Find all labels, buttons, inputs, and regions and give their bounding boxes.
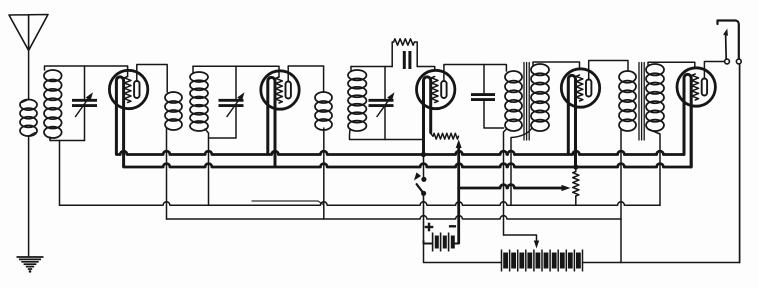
wire plate lead V1 xyxy=(137,65,167,93)
tube V3 detector xyxy=(417,70,455,108)
transformer T4 secondary xyxy=(531,64,549,75)
wire L1 to ground xyxy=(28,136,30,256)
transformer T3 secondary xyxy=(348,70,366,80)
wire grid circuit stage 3 xyxy=(351,66,392,68)
capacitor C4 bypass xyxy=(471,93,495,96)
ground xyxy=(17,256,44,258)
wire switch to A battery xyxy=(423,195,425,241)
wire V5 left leg to A+ bus xyxy=(683,108,686,155)
filament V4 xyxy=(568,75,575,167)
transformer T2 secondary xyxy=(190,72,208,82)
wire plate lead V5 xyxy=(704,62,724,79)
wire grid lead V5 xyxy=(648,62,695,68)
grid condenser xyxy=(403,51,406,69)
filament V1 xyxy=(116,77,123,167)
wire antenna lead-in xyxy=(28,51,30,100)
wire V5 right leg to A- bus xyxy=(690,108,693,167)
transformer T5 secondary xyxy=(646,64,664,75)
wire T5 secondary bottom xyxy=(648,129,660,205)
wire grid lead V4 xyxy=(533,62,580,69)
junction V3 filament to A+ bus xyxy=(421,152,426,157)
wire grid lead V3 xyxy=(417,67,435,71)
phone terminal tip jack right xyxy=(736,59,741,64)
wire B battery tap xyxy=(504,235,537,241)
transformer T4 primary xyxy=(505,71,522,83)
wire bus to switch contact xyxy=(423,155,425,178)
wire T4 secondary bottom xyxy=(511,128,532,205)
rheostat R1 filament xyxy=(431,134,433,137)
wire T4 primary bottom to tap xyxy=(504,129,507,235)
wire T3 primary bottom to B+ bus xyxy=(323,128,325,219)
tube V2 second RF amplifier xyxy=(261,71,299,109)
wire T2 primary bottom to B+ bus xyxy=(166,128,168,219)
capacitor C1 variable tuning xyxy=(72,99,97,102)
antenna xyxy=(9,15,48,51)
junction V4 filament A- bus xyxy=(573,164,578,169)
coil L2 tuned secondary xyxy=(44,70,62,81)
wire grid lead V1 xyxy=(127,66,129,77)
wire plate lead V3 xyxy=(444,65,507,81)
wire T3 secondary bottom to filament xyxy=(350,129,424,140)
battery B plate supply xyxy=(501,250,503,272)
wire A+ filament bus xyxy=(116,151,684,154)
wire grid return bus xyxy=(60,202,661,205)
wire grid bias lead xyxy=(459,185,564,188)
wire grid lead V2 xyxy=(278,66,280,77)
filament switch S1 xyxy=(421,177,426,182)
wire A- filament bus xyxy=(124,164,692,167)
wire T5 primary bottom to B+ xyxy=(620,129,622,263)
coil L1 antenna coupling primary xyxy=(20,100,37,111)
transformer T4 core xyxy=(523,63,525,141)
capacitor C2 variable tuning xyxy=(219,99,244,102)
transformer T2 primary xyxy=(165,92,182,103)
wire C- riser with tap arrow xyxy=(457,146,460,243)
potentiometer grid bias xyxy=(575,167,577,172)
transformer T5 primary xyxy=(619,71,636,83)
filament V5 xyxy=(684,74,691,167)
wire grid circuit stage 1 xyxy=(45,66,128,70)
wire grid circuit stage 2 xyxy=(193,65,278,67)
battery A filament supply xyxy=(424,241,433,244)
wire phones to B+ xyxy=(739,64,741,263)
phone terminal tip jack left xyxy=(725,59,730,64)
tube V5 second audio amplifier xyxy=(677,68,715,106)
wire detector return xyxy=(252,201,324,205)
wire plate lead V4 xyxy=(589,61,628,80)
capacitor C3 variable tuning xyxy=(369,99,394,102)
wire A battery to B battery minus xyxy=(424,244,502,263)
wire T2 secondary bottom xyxy=(205,129,209,205)
phone hook wire xyxy=(718,21,739,59)
transformer T3 primary xyxy=(315,92,332,103)
wire plate lead V2 xyxy=(288,66,323,92)
grid leak resistor xyxy=(394,39,415,45)
wire B+ line xyxy=(583,262,740,264)
wire L2 bottom to C1 xyxy=(50,137,85,141)
filament V3 xyxy=(424,77,431,155)
filament V2 xyxy=(268,77,275,167)
tube V4 first audio amplifier xyxy=(561,69,599,107)
phone switch blade xyxy=(725,34,728,59)
transformer T5 core xyxy=(638,63,640,141)
tube V1 first RF amplifier xyxy=(109,70,147,108)
